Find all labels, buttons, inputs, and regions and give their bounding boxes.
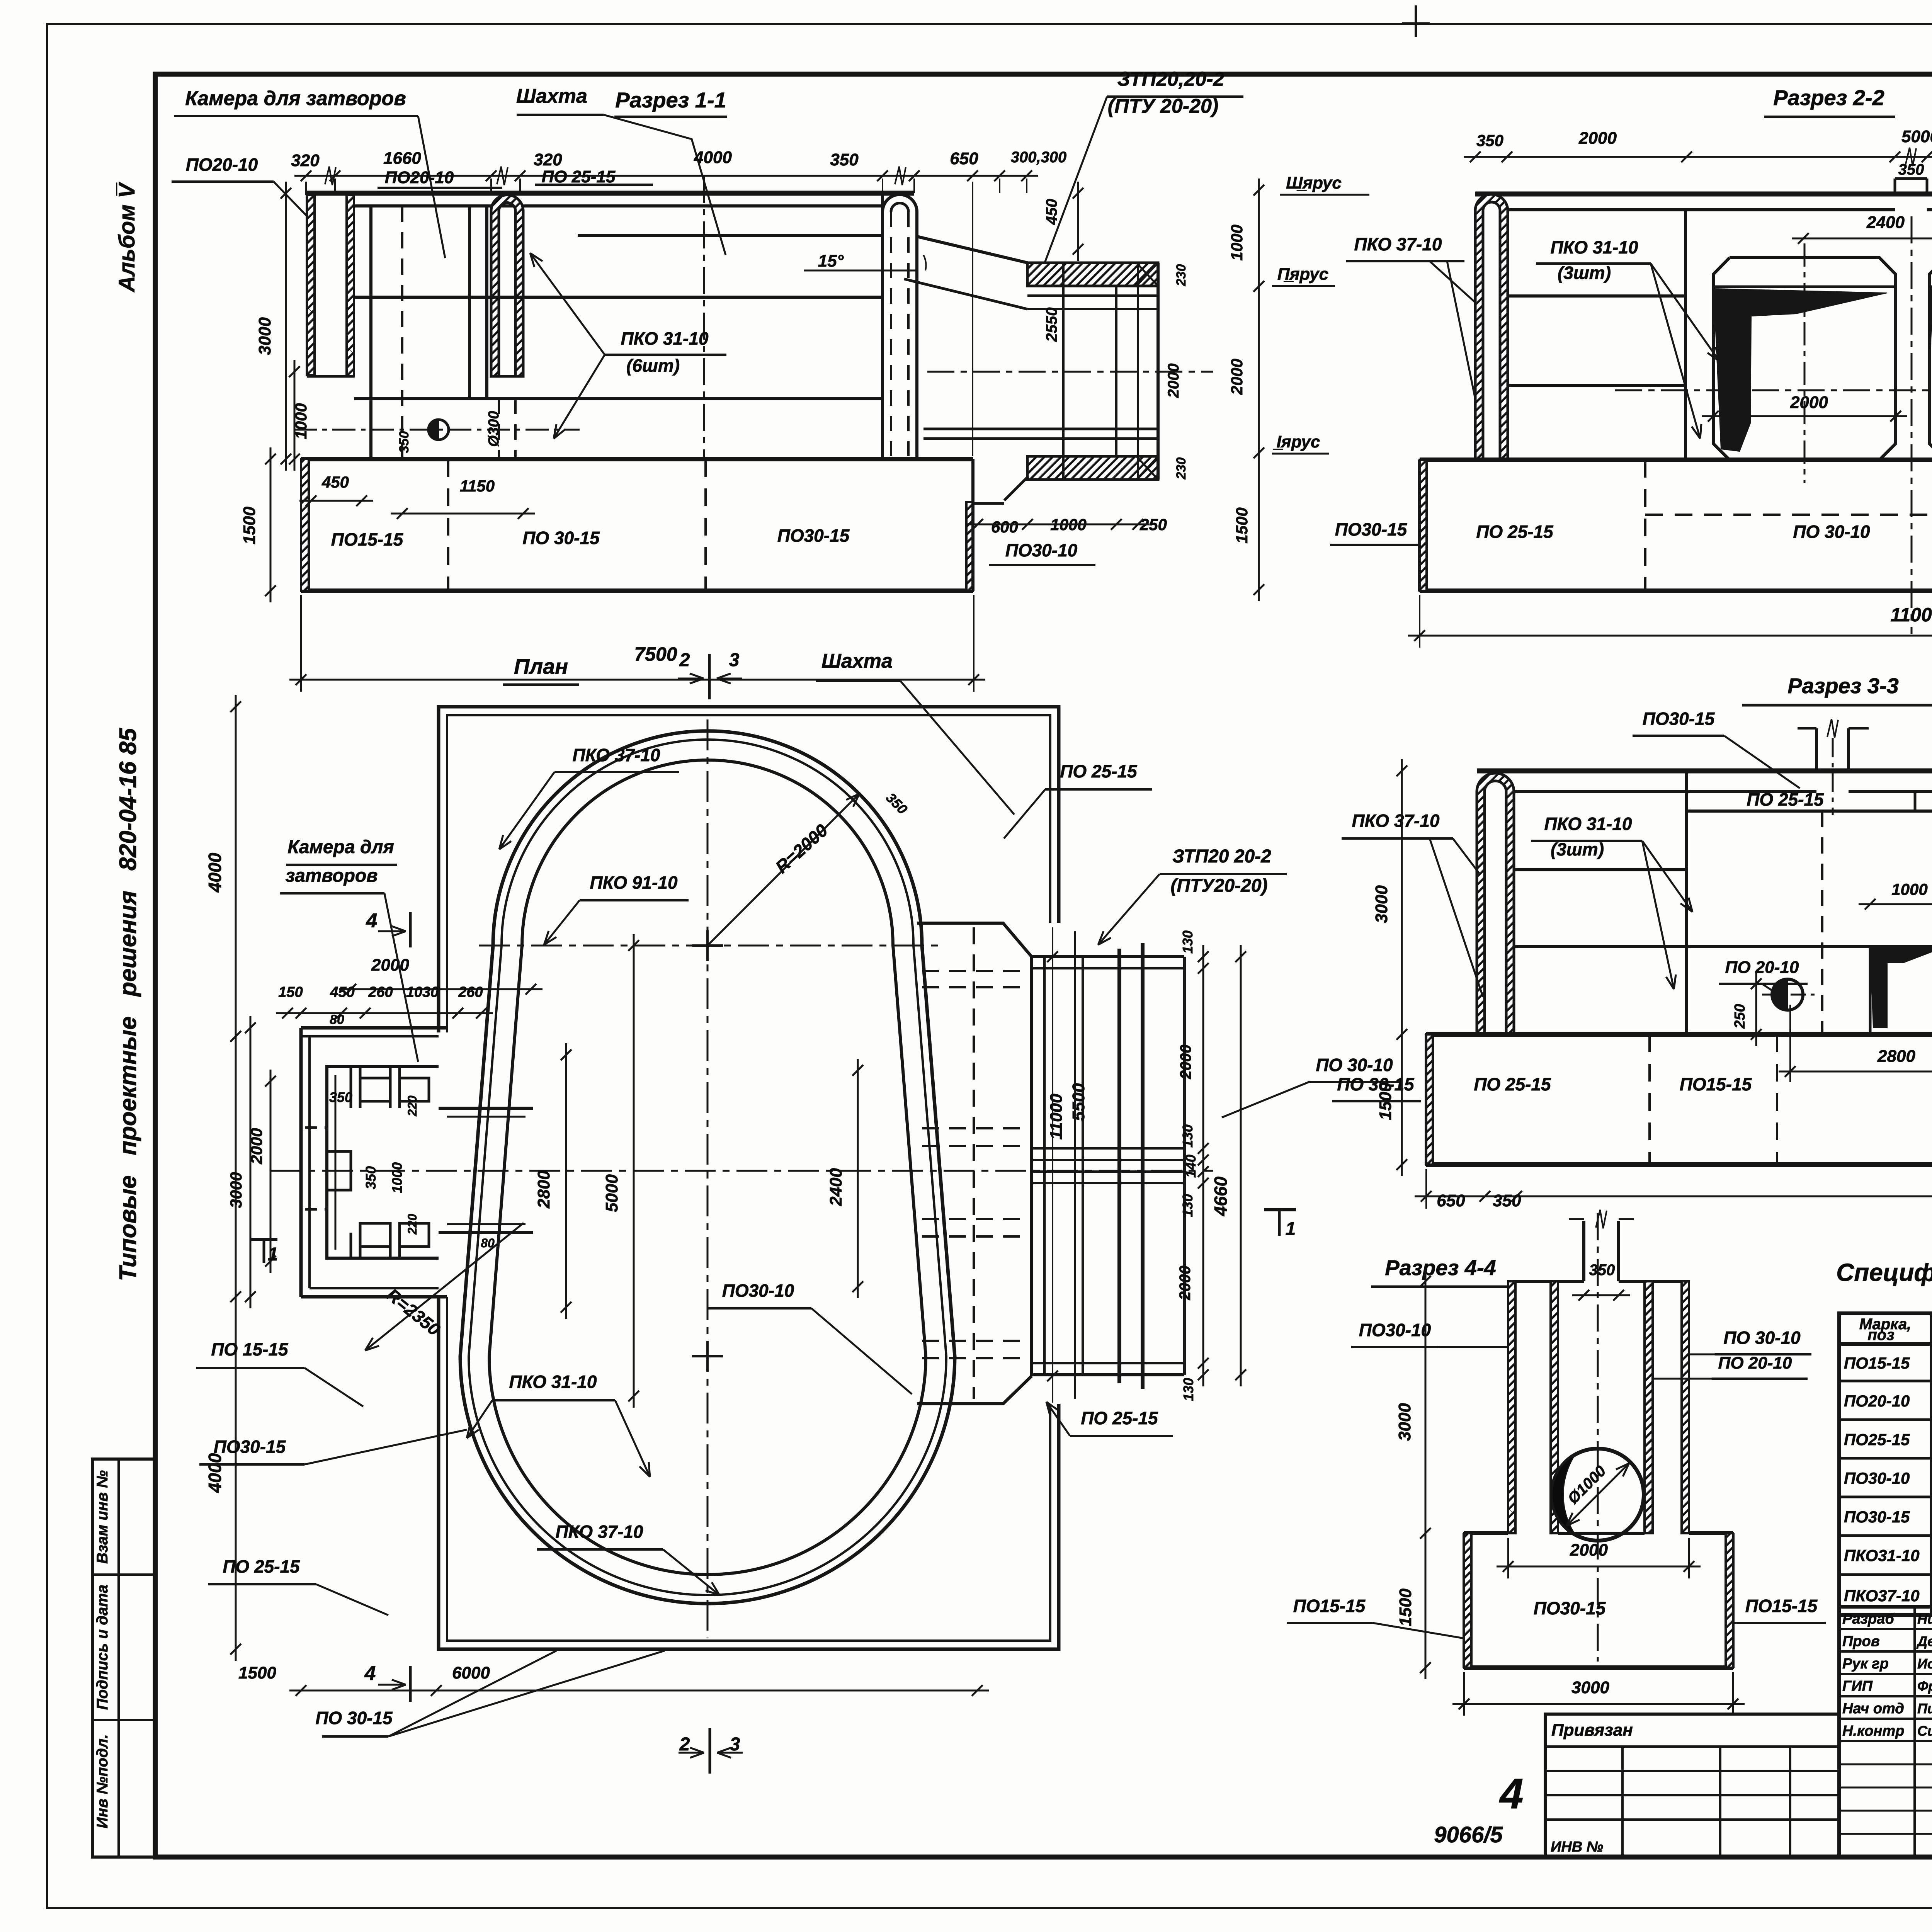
svg-text:9066/5: 9066/5: [1434, 1822, 1503, 1847]
specification table grid: [1839, 1313, 1932, 1615]
svg-text:ПО30-15: ПО30-15: [777, 526, 850, 546]
svg-text:2000: 2000: [1790, 393, 1828, 412]
svg-text:ПО 20-10: ПО 20-10: [1718, 1354, 1792, 1372]
svg-text:320: 320: [534, 150, 562, 169]
svg-text:ПО 30-10: ПО 30-10: [1316, 1055, 1393, 1075]
svg-text:2: 2: [679, 1734, 690, 1755]
bottom-left stamp boxes: [92, 1459, 155, 1857]
svg-text:ПО30-10: ПО30-10: [1005, 540, 1078, 560]
svg-text:2000: 2000: [1228, 359, 1246, 395]
plan axes: [707, 719, 709, 1638]
svg-text:5500: 5500: [1069, 1083, 1088, 1121]
3-3 pipe stub left: [1815, 728, 1818, 771]
svg-text:2800: 2800: [1877, 1047, 1915, 1066]
svg-text:6000: 6000: [452, 1663, 490, 1682]
svg-text:11000: 11000: [1890, 604, 1932, 626]
svg-text:ПО20-10: ПО20-10: [186, 155, 258, 175]
section 1-1 top dimension chain: [294, 175, 1038, 177]
plan left dim chain: [235, 695, 237, 1661]
svg-text:ПКО 37-10: ПКО 37-10: [556, 1522, 643, 1542]
svg-text:350: 350: [830, 150, 859, 169]
svg-text:450: 450: [1043, 199, 1060, 225]
svg-text:2800: 2800: [534, 1170, 553, 1209]
dim 1000 flag: [1859, 903, 1932, 905]
section 3-3 chamber faces: [1685, 771, 1688, 1034]
svg-text:ПО30-10: ПО30-10: [1844, 1469, 1910, 1487]
3-3 center short vertical: [1914, 792, 1917, 811]
svg-text:2: 2: [679, 650, 690, 670]
plan pipes dashed hidden lines: [922, 970, 1032, 972]
svg-text:Типовые проектные решения: Типовые проектные решения 820-04-16 85: [115, 728, 141, 1281]
svg-text:(3шт): (3шт): [1558, 263, 1611, 283]
svg-text:350: 350: [329, 1089, 352, 1105]
svg-text:7500: 7500: [634, 643, 677, 665]
dim 2000 4-4: [1497, 1566, 1701, 1568]
dim 2800 3-3: [1779, 1071, 1932, 1073]
section 1-1 left wall outer hatched: [307, 195, 315, 375]
4-4 left dims: [1425, 1270, 1427, 1679]
left opening black gate: [1715, 289, 1887, 451]
svg-text:220: 220: [405, 1214, 419, 1235]
svg-text:ПО30-15: ПО30-15: [1335, 519, 1408, 539]
svg-text:ЗТП20 20-2: ЗТП20 20-2: [1172, 846, 1271, 867]
chamber gate slots top: [350, 1066, 352, 1108]
svg-text:Девяшин: Девяшин: [1916, 1633, 1932, 1649]
plan pipes verticals: [1030, 957, 1033, 1376]
section 2-2 left wall pair with dome cap: [1475, 194, 1508, 460]
svg-text:140: 140: [1183, 1155, 1199, 1178]
svg-text:600: 600: [991, 518, 1018, 536]
section 3-3 top slab: [1477, 769, 1932, 774]
svg-text:ПО15-15: ПО15-15: [1745, 1596, 1818, 1616]
chamber pier: [327, 1151, 351, 1190]
svg-text:4660: 4660: [1211, 1176, 1231, 1216]
section 3-3 foundation: [1426, 1032, 1932, 1037]
svg-text:Пров: Пров: [1842, 1633, 1880, 1650]
svg-text:ПО15-15: ПО15-15: [331, 529, 404, 549]
dim 3000 4-4: [1452, 1703, 1745, 1705]
svg-text:ПКО 91-10: ПКО 91-10: [590, 872, 678, 893]
svg-text:220: 220: [405, 1095, 419, 1117]
svg-text:Писнячевский: Писнячевский: [1917, 1701, 1932, 1716]
right opening black gate: [1931, 289, 1932, 451]
section 2-2 ring joints: [1508, 294, 1685, 298]
chamber neck walls: [439, 1107, 533, 1110]
svg-text:2000: 2000: [1570, 1541, 1608, 1560]
svg-text:ПО 25-15: ПО 25-15: [1081, 1408, 1158, 1428]
svg-text:450: 450: [330, 984, 354, 1000]
svg-text:Спецификация сборных железобет: Спецификация сборных железобетонных элем…: [1836, 1259, 1932, 1286]
svg-text:1: 1: [1286, 1219, 1296, 1239]
3-3 left dims: [1401, 759, 1403, 1176]
svg-text:300,300: 300,300: [1011, 149, 1067, 166]
svg-text:350: 350: [1476, 131, 1503, 150]
svg-text:250: 250: [1732, 1004, 1748, 1029]
svg-text:Рук гр: Рук гр: [1842, 1656, 1889, 1672]
dim 11000: [1408, 635, 1932, 637]
svg-text:260: 260: [458, 984, 483, 1000]
svg-text:11000: 11000: [1047, 1094, 1066, 1140]
svg-text:Взам инв №: Взам инв №: [94, 1470, 111, 1564]
svg-text:2000: 2000: [371, 956, 409, 975]
svg-text:(6шт): (6шт): [626, 355, 680, 376]
leader shakhta: [604, 115, 726, 255]
ZTP pipe top hatched band: [1027, 263, 1158, 286]
svg-text:130: 130: [1180, 930, 1196, 954]
section 2-2 top slab: [1475, 192, 1932, 197]
dim 4660: [1240, 945, 1242, 1386]
svg-text:2000: 2000: [1177, 1045, 1194, 1080]
svg-text:1150: 1150: [460, 477, 495, 495]
svg-text:Разрез 1-1: Разрез 1-1: [615, 88, 726, 112]
svg-text:ПО15-15: ПО15-15: [1680, 1074, 1752, 1094]
svg-text:ПО 30-10: ПО 30-10: [1723, 1328, 1801, 1348]
svg-text:Н.контр: Н.контр: [1842, 1723, 1904, 1739]
svg-text:4: 4: [364, 1662, 376, 1685]
svg-text:ПКО 37-10: ПКО 37-10: [1354, 234, 1442, 254]
svg-text:2000: 2000: [1578, 129, 1617, 148]
section 1-1 left wall inner hatched: [347, 195, 354, 376]
svg-text:3: 3: [729, 650, 740, 670]
svg-text:ПО15-15: ПО15-15: [1293, 1596, 1366, 1616]
plan pipes bottom slab edge: [917, 1376, 1032, 1404]
section 3-3 ring joints: [1514, 868, 1687, 871]
svg-text:(ПТУ20-20): (ПТУ20-20): [1170, 876, 1267, 896]
svg-text:Привязан: Привязан: [1551, 1721, 1633, 1740]
svg-text:320: 320: [291, 151, 320, 170]
svg-text:1500: 1500: [240, 507, 259, 544]
F1000 diagonal dim: [1598, 1463, 1629, 1495]
svg-text:ПО30-15: ПО30-15: [1643, 709, 1715, 729]
svg-text:Иоффе: Иоффе: [1917, 1656, 1932, 1672]
4-4 wall hatched strips: [1508, 1281, 1515, 1533]
4-4 circle F1000: [1552, 1449, 1644, 1541]
svg-text:4: 4: [1499, 1770, 1523, 1818]
svg-text:1500: 1500: [1376, 1082, 1395, 1120]
dim 7500: [289, 679, 985, 681]
plan hidden oval edge: [973, 927, 975, 1399]
section 2-2 left opening: [1713, 258, 1896, 460]
svg-text:130: 130: [1180, 1194, 1196, 1217]
svg-text:ПО30-10: ПО30-10: [1359, 1320, 1431, 1340]
svg-text:3000: 3000: [1395, 1403, 1414, 1441]
svg-text:450: 450: [321, 473, 349, 491]
svg-text:Разрез 3-3: Разрез 3-3: [1787, 673, 1899, 698]
svg-text:ПКО31-10: ПКО31-10: [1844, 1546, 1920, 1565]
section 2-2 foundation: [1420, 457, 1932, 462]
svg-text:Нач отд: Нач отд: [1842, 1701, 1904, 1717]
svg-text:ПО 30-10: ПО 30-10: [1793, 522, 1870, 542]
svg-text:1: 1: [268, 1244, 278, 1265]
svg-text:1000: 1000: [1228, 224, 1246, 260]
svg-text:3000: 3000: [1372, 885, 1391, 923]
section 1-1 foundation: [301, 457, 973, 461]
svg-text:1660: 1660: [383, 149, 421, 168]
svg-text:Разрез 4-4: Разрез 4-4: [1385, 1255, 1496, 1280]
svg-text:1000: 1000: [389, 1162, 405, 1193]
section 2-2 chamber inner faces: [1684, 210, 1687, 460]
3-3 bottom dims: [1415, 1196, 1932, 1197]
plan headwall: [1117, 949, 1121, 1383]
svg-text:ПО 25-15: ПО 25-15: [1474, 1074, 1551, 1094]
svg-text:1500: 1500: [238, 1663, 276, 1682]
plan chamber outer walls: [301, 1026, 447, 1030]
svg-text:650: 650: [950, 149, 978, 168]
svg-text:ПО 25-15: ПО 25-15: [542, 167, 616, 186]
leader ZTP: [1043, 97, 1107, 267]
section 2-2 center axis: [1911, 216, 1913, 634]
svg-text:ПО 25-15: ПО 25-15: [1747, 789, 1824, 810]
section 2-2 top dimension chain: [1464, 156, 1932, 158]
title block left grid: [1913, 1607, 1916, 1857]
chamber gate slots bottom: [350, 1233, 352, 1258]
svg-text:ПКО 31-10: ПКО 31-10: [1551, 237, 1638, 257]
ZTP pipe bottom hatched band: [1027, 456, 1158, 480]
svg-text:2400: 2400: [827, 1168, 845, 1206]
svg-text:План: План: [514, 654, 568, 679]
svg-text:2400: 2400: [1866, 213, 1905, 232]
section 3-3 middle lines: [1687, 810, 1932, 813]
3-3 middle dashed verticals: [1821, 811, 1823, 1034]
svg-text:350: 350: [363, 1166, 379, 1189]
section 1-1 small pipe circle F300: [429, 420, 449, 440]
section 1-1 top slab lines: [306, 191, 914, 196]
foundation dashed dividers 2-2: [1644, 460, 1646, 591]
ZTP pipe socket lines: [1027, 294, 1158, 297]
svg-text:Подпись и дата: Подпись и дата: [94, 1585, 111, 1710]
svg-text:1000: 1000: [292, 403, 310, 439]
svg-text:ПО 25-15: ПО 25-15: [1060, 761, 1138, 781]
svg-text:ПО30-15: ПО30-15: [214, 1437, 286, 1457]
svg-text:2000: 2000: [247, 1128, 265, 1164]
svg-text:Камера для: Камера для: [287, 837, 394, 857]
privyazan block: [1545, 1714, 1839, 1857]
radius R2350: [365, 1223, 524, 1350]
plan section marker 1 left: [250, 1238, 277, 1241]
ZTP invert step: [1004, 476, 1028, 500]
svg-text:2550: 2550: [1043, 308, 1060, 342]
svg-text:поз: поз: [1867, 1327, 1894, 1344]
svg-text:4000: 4000: [205, 1453, 225, 1493]
svg-text:3000: 3000: [227, 1172, 245, 1208]
section 1-1 left dimensions: [285, 182, 287, 471]
section 3-3 left wall pair: [1477, 773, 1514, 1034]
svg-text:ПО 25-15: ПО 25-15: [1476, 522, 1554, 542]
plan oval internal dims: [565, 1043, 567, 1319]
svg-text:ПО15-15: ПО15-15: [1844, 1354, 1910, 1372]
svg-text:ПО 15-15: ПО 15-15: [211, 1339, 289, 1359]
4-4 foundation: [1464, 1531, 1508, 1535]
svg-text:Шахта: Шахта: [516, 85, 587, 107]
svg-text:350: 350: [397, 431, 412, 453]
section 1-1 axis line: [703, 176, 705, 460]
plan oval outer contour: [460, 731, 955, 1604]
svg-text:ЗТП20,20-2: ЗТП20,20-2: [1117, 68, 1225, 90]
foundation dashed dividers: [447, 459, 449, 591]
svg-text:130: 130: [1180, 1124, 1196, 1148]
ZTP pipe joints verticals: [1062, 263, 1065, 480]
section 1-1 dome wall PKO: [491, 195, 523, 376]
svg-text:ПКО 31-10: ПКО 31-10: [621, 328, 709, 349]
svg-text:1000: 1000: [1891, 880, 1927, 898]
svg-text:3000: 3000: [255, 317, 274, 355]
svg-text:5000: 5000: [602, 1174, 621, 1212]
4-4 top caps: [1508, 1280, 1584, 1283]
svg-text:ПО 25-15: ПО 25-15: [223, 1556, 300, 1577]
section 1-1 right wall with dome top: [883, 195, 917, 212]
section 1-1 transition diagonals to pipe: [917, 236, 1027, 263]
top fold mark: [1415, 5, 1417, 37]
dim 2400: [1792, 238, 1932, 240]
plan pipes top slab edge: [917, 923, 1032, 957]
4-4 neck with break: [1582, 1221, 1585, 1281]
svg-text:4: 4: [366, 910, 378, 932]
plan oval middle contour: [469, 740, 946, 1595]
svg-text:4000: 4000: [694, 148, 732, 167]
3-3 black flag: [1870, 947, 1932, 1028]
plan bottom dims: [289, 1690, 989, 1692]
plan right dim chain: [1202, 945, 1204, 1386]
svg-text:ПО 30-15: ПО 30-15: [522, 528, 600, 548]
svg-text:Николаева: Николаева: [1917, 1611, 1932, 1627]
4-4 axis: [1597, 1213, 1599, 1662]
section 1-1 chamber wall faces: [369, 206, 372, 459]
openings horizontal axis: [1615, 389, 1932, 391]
svg-text:3: 3: [730, 1734, 740, 1755]
plan pipes solid lines: [1032, 955, 1184, 958]
3-3 pipe circles F300: [1772, 979, 1803, 1010]
svg-text:15°: 15°: [818, 252, 844, 270]
svg-text:Инв №подл.: Инв №подл.: [94, 1734, 111, 1828]
svg-text:затворов: затворов: [286, 866, 378, 886]
svg-text:(ПТУ 20-20): (ПТУ 20-20): [1108, 95, 1218, 117]
svg-text:ПКО 37-10: ПКО 37-10: [1352, 811, 1440, 831]
svg-text:ПКО 37-10: ПКО 37-10: [573, 745, 660, 765]
plan chamber inner box: [327, 1066, 439, 1258]
svg-text:ПКО37-10: ПКО37-10: [1844, 1587, 1920, 1605]
svg-text:130: 130: [1180, 1378, 1196, 1401]
radius R2000: [707, 794, 859, 946]
svg-text:ПО30-15: ПО30-15: [1844, 1508, 1910, 1526]
svg-text:350: 350: [1589, 1262, 1615, 1279]
ZTP pipe axis: [927, 371, 1213, 373]
svg-text:230: 230: [1174, 264, 1189, 287]
left opening axis: [1804, 243, 1806, 483]
leader kamera: [418, 116, 445, 258]
svg-text:80: 80: [330, 1012, 344, 1027]
svg-text:2000: 2000: [1165, 364, 1182, 398]
svg-text:ПО 20-10: ПО 20-10: [1725, 958, 1799, 977]
svg-text:230: 230: [1174, 457, 1189, 480]
svg-text:I̲ярус: I̲ярус: [1273, 432, 1320, 451]
plan section marker 1 right: [1264, 1208, 1296, 1211]
svg-text:П̲ярус: П̲ярус: [1277, 265, 1328, 284]
svg-text:2000: 2000: [1177, 1266, 1194, 1301]
svg-text:Ш̲ярус: Ш̲ярус: [1286, 173, 1342, 192]
svg-text:ПО25-15: ПО25-15: [1844, 1430, 1910, 1449]
svg-text:Шахта: Шахта: [821, 650, 893, 672]
svg-text:Камера для затворов: Камера для затворов: [185, 87, 406, 110]
svg-text:ИНВ №: ИНВ №: [1551, 1839, 1603, 1855]
dim 2000 left opening: [1702, 415, 1907, 417]
svg-text:Альбом V̅: Альбом V̅: [114, 182, 139, 293]
svg-text:1500: 1500: [1233, 507, 1251, 543]
3-3 foundation dashed dividers: [1648, 1034, 1651, 1165]
svg-text:(3шт): (3шт): [1551, 839, 1604, 859]
svg-text:ПО20-10: ПО20-10: [385, 168, 454, 187]
level dimension chain right: [1258, 179, 1260, 601]
svg-text:4000: 4000: [205, 852, 225, 893]
svg-text:ПО30-10: ПО30-10: [722, 1281, 794, 1301]
plan oval inner contour: [489, 760, 926, 1575]
svg-text:80: 80: [481, 1236, 495, 1250]
section 1-1 ring joint lines: [354, 296, 883, 299]
plan outer rectangle: [439, 707, 1059, 1032]
svg-text:Сильченко: Сильченко: [1917, 1723, 1932, 1739]
svg-text:5000: 5000: [1901, 127, 1932, 146]
svg-text:1030: 1030: [406, 984, 439, 1000]
svg-text:150: 150: [278, 984, 303, 1000]
title block outer: [1839, 1607, 1932, 1857]
svg-text:350: 350: [1493, 1191, 1521, 1210]
svg-text:Разрез 2-2: Разрез 2-2: [1773, 85, 1884, 110]
svg-text:ГИП: ГИП: [1842, 1678, 1873, 1694]
svg-text:Разраб: Разраб: [1842, 1611, 1895, 1627]
svg-text:Ø300: Ø300: [486, 411, 502, 447]
svg-text:350: 350: [1898, 161, 1924, 178]
svg-text:ПКО 31-10: ПКО 31-10: [1544, 814, 1632, 834]
svg-text:1500: 1500: [1396, 1588, 1415, 1626]
svg-text:650: 650: [1437, 1191, 1465, 1210]
ZTP pipe cross-hatch right squares: [1136, 263, 1158, 286]
svg-text:Франк: Франк: [1917, 1678, 1932, 1694]
svg-text:ПО20-10: ПО20-10: [1844, 1392, 1910, 1410]
section 2-2 right opening: [1929, 258, 1932, 460]
svg-text:3000: 3000: [1571, 1678, 1609, 1697]
svg-text:260: 260: [368, 984, 393, 1000]
svg-text:ПКО 31-10: ПКО 31-10: [509, 1372, 597, 1392]
svg-text:ПО30-15: ПО30-15: [1534, 1598, 1606, 1618]
svg-text:ПО 30-15: ПО 30-15: [315, 1708, 393, 1728]
